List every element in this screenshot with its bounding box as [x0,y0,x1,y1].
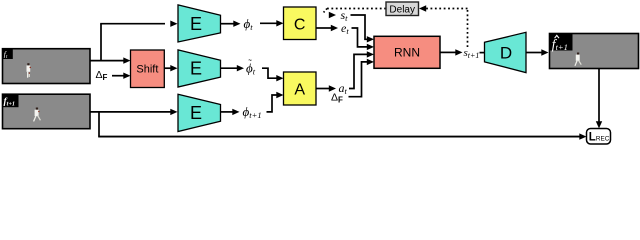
svg-text:Shift: Shift [136,64,158,76]
wire C to label e_t [316,27,332,29]
wire output frame down to L_REC [598,69,600,123]
wire f_t junction up to encoder E1 [100,24,102,62]
svg-text:E: E [190,103,202,123]
block Delay [386,2,419,16]
wire D to output frame [526,52,542,54]
dotted wire Delay to s_t [327,8,386,10]
person figure in frame f_t [27,63,31,78]
wire s_t to RNN input 1 [351,15,368,39]
svg-text:Delay: Delay [389,4,415,15]
wire φ_t to C [260,22,277,24]
wire f_t+1 junction down to L_REC (long bottom wire) [98,112,100,137]
block RNN [374,36,440,68]
wire E1 to label φ_t [221,23,235,25]
dotted feedback wire s_t+1 to Delay [467,9,469,48]
wire Shift to encoder E2 [164,67,171,69]
wire a_t to RNN input 3 [349,54,368,88]
wire E3 to label φ_t+1 [221,111,234,113]
wire E2 to label φ~_t [221,67,238,69]
wire Δ_F to Shift [112,75,125,77]
encoder E2 [178,50,221,87]
svg-text:D: D [500,44,512,63]
svg-text:E: E [190,59,202,79]
wire s_t+1 to D [480,52,485,54]
encoder E3 [178,94,221,131]
wire f_t to Shift [90,60,125,62]
frame f_t (input video frame) [2,48,90,83]
encoder E1 [178,5,221,42]
block C [284,7,317,40]
block L_REC [587,129,611,145]
svg-text:E: E [190,14,202,34]
person figure in output frame [574,53,581,67]
block Shift [131,50,165,88]
block A [284,72,317,105]
wire Δ_F to RNN input 4 [349,62,368,97]
decoder D [485,32,527,72]
wire φ_t+1 to A input 2 [267,95,278,112]
wire f_t+1 to encoder E3 [90,111,171,113]
wire φ~_t to A input 1 [262,68,278,78]
wire RNN to label s_t+1 [440,51,456,53]
wire A to label a_t [316,88,330,90]
svg-text:C: C [294,17,306,34]
wire e_t to RNN input 2 [352,28,368,47]
output frame f̂_t+1 [549,33,639,69]
frame f_t+1 (input video frame) [2,94,90,129]
svg-text:RNN: RNN [394,46,420,60]
svg-text:A: A [294,82,305,99]
person figure in frame f_t+1 [33,108,41,122]
arrow into s_t [329,12,336,18]
